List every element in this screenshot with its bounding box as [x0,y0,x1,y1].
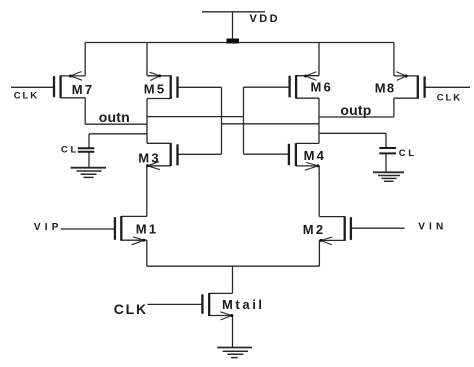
svg-text:VIN: VIN [418,222,447,233]
svg-text:M4: M4 [304,148,326,163]
svg-text:CL: CL [399,148,417,159]
svg-text:VIP: VIP [34,222,63,233]
svg-text:outp: outp [340,102,371,118]
svg-text:outn: outn [99,109,130,125]
svg-text:Mtail: Mtail [222,297,265,312]
svg-text:M7: M7 [72,82,94,97]
svg-text:M6: M6 [311,79,333,94]
svg-text:M5: M5 [144,82,166,97]
svg-text:CLK: CLK [437,92,462,103]
svg-text:M8: M8 [375,80,395,95]
svg-text:CL: CL [61,145,79,156]
svg-text:CLK: CLK [14,91,39,102]
svg-text:M1: M1 [136,221,158,236]
svg-text:CLK: CLK [114,301,148,317]
svg-text:VDD: VDD [250,13,280,25]
svg-text:M3: M3 [138,150,160,165]
svg-text:M2: M2 [303,222,325,237]
